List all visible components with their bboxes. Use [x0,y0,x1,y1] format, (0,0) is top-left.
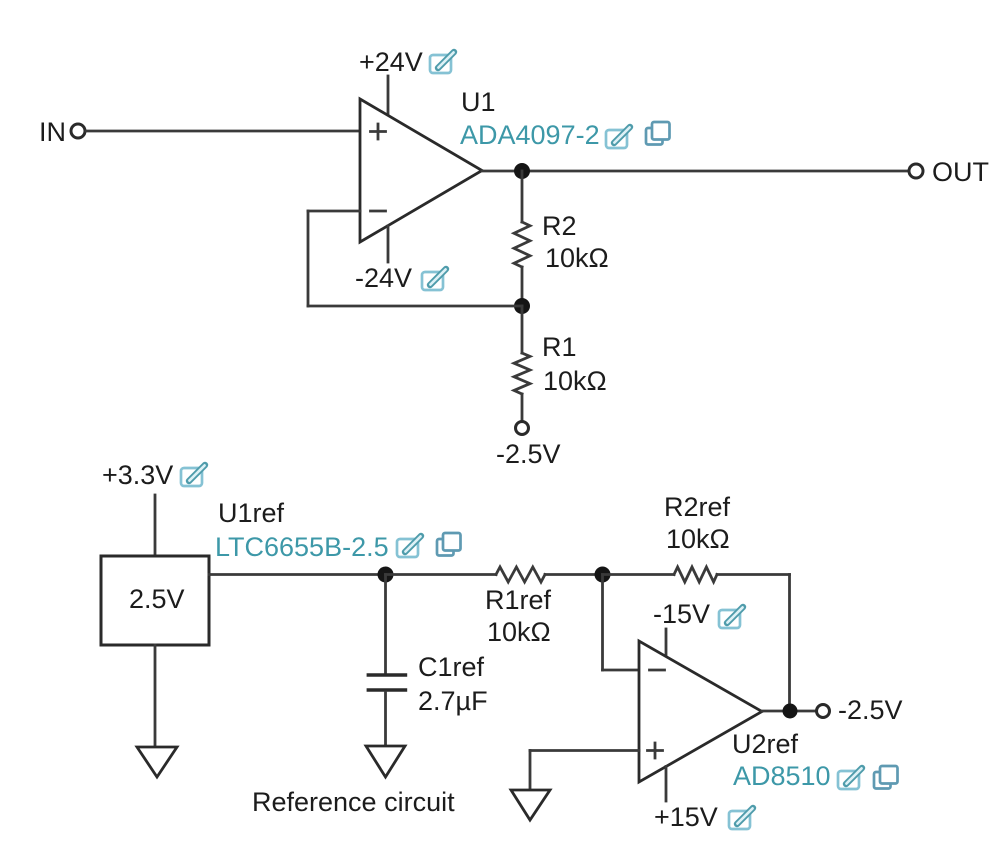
svg-text:-24V: -24V [355,263,412,293]
edit icon for LTC6655B-2.5 [397,536,421,557]
node summing junction [595,567,611,583]
U1 minus input marker [371,210,386,213]
wire IN to U1 noninverting input [86,130,360,133]
wire to U2ref inverting input [603,669,640,672]
copy icon for AD8510 [874,766,898,789]
wire ground to U2ref noninverting input [530,749,639,752]
svg-text:R2: R2 [542,211,577,241]
wire feedback down to output node [788,575,791,712]
wire +3.3V to U1ref box [154,495,157,556]
svg-text:R1ref: R1ref [485,585,552,615]
edit icon for +3.3V [181,465,205,486]
U2ref plus input marker [648,743,663,758]
svg-text:U1: U1 [461,87,496,117]
edit icon for +24V [430,52,454,73]
edit icon for AD8510 [838,768,862,789]
wire down to ground [529,751,532,791]
wire junction down to R1 [521,306,524,353]
wire U1ref output to node [209,573,386,576]
op-amp U1 [360,99,482,242]
node R1 R2 junction [514,298,530,314]
ground under C1ref [366,746,405,777]
svg-text:U2ref: U2ref [732,729,799,759]
edit icon for +15V [729,808,753,829]
svg-text:+3.3V: +3.3V [102,460,173,490]
terminal OUT [909,164,923,178]
capacitor C1ref [367,675,408,690]
wire feedback to U1 inverting input [308,210,360,213]
wire R2 to junction node [521,267,524,306]
svg-text:U1ref: U1ref [218,498,285,528]
wire feedback junction to left [308,305,522,308]
wire -24V supply from U1 V- pin [387,226,390,262]
wire U1 output to OUT [482,170,909,173]
wire node to R1ref [386,573,497,576]
svg-text:10kΩ: 10kΩ [545,243,609,273]
wire output node down to R2 [521,171,524,222]
node at U2ref output [783,704,798,719]
voltage reference U1ref box [101,556,209,645]
svg-text:10kΩ: 10kΩ [543,366,607,396]
svg-text:C1ref: C1ref [418,652,485,682]
svg-text:2.7µF: 2.7µF [418,686,488,716]
svg-text:-15V: -15V [653,599,710,629]
U1 plus input marker [371,124,386,139]
svg-text:AD8510: AD8510 [733,761,831,791]
wire feedback up [307,211,310,306]
wire +15V supply to U2ref V+ pin [665,767,668,802]
wire R1ref to summing node [545,573,603,576]
svg-text:+15V: +15V [654,802,718,832]
terminal -2.5V output [817,705,830,718]
wire U2ref output to terminal [762,710,816,713]
svg-text:OUT: OUT [932,157,989,187]
svg-text:IN: IN [39,117,66,147]
wire node down to C1ref [384,575,387,674]
svg-text:ADA4097-2: ADA4097-2 [460,120,600,150]
copy icon for ADA4097-2 [646,122,670,145]
wire R2ref to right [717,573,790,576]
svg-text:R2ref: R2ref [664,492,731,522]
copy icon for LTC6655B-2.5 [437,533,461,556]
terminal -2.5V at R1 [516,422,529,435]
wire +24V supply to U1 V+ pin [387,76,390,116]
U2ref minus input marker [650,669,665,672]
ground under U1ref [137,747,177,777]
resistor R1 [514,353,530,394]
wire U1ref box down to ground [154,645,157,747]
wire summing node down to U2ref inverting input [601,575,604,671]
node at U1 output [514,163,530,179]
svg-text:2.5V: 2.5V [129,584,185,614]
svg-text:10kΩ: 10kΩ [487,617,551,647]
svg-text:Reference circuit: Reference circuit [252,787,455,817]
edit icon for -24V [422,269,446,290]
edit icon for ADA4097-2 [606,127,630,148]
wire summing node to R2ref [603,573,675,576]
svg-text:-2.5V: -2.5V [838,695,903,725]
resistor R2 [514,222,530,267]
node reference output [378,567,394,583]
resistor R1ref [496,567,545,582]
wire -15V supply to U2ref V- pin [665,629,668,657]
svg-text:LTC6655B-2.5: LTC6655B-2.5 [215,532,389,562]
edit icon for -15V [719,607,743,628]
resistor R2ref [674,567,717,582]
wire C1ref to ground [384,692,387,746]
svg-text:+24V: +24V [359,47,423,77]
svg-text:R1: R1 [542,332,577,362]
ground at U2ref noninverting input [511,790,550,820]
svg-text:10kΩ: 10kΩ [666,524,730,554]
terminal IN [71,124,85,138]
op-amp U2ref [639,641,762,782]
svg-text:-2.5V: -2.5V [496,439,561,469]
wire R1 to -2.5V terminal [521,394,524,421]
